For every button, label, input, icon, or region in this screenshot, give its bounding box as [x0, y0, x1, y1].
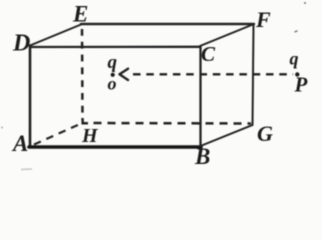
svg-text:B: B — [194, 144, 210, 169]
noise speck top right — [304, 2, 306, 4]
svg-text:H: H — [81, 125, 99, 147]
svg-text:C: C — [201, 42, 216, 66]
svg-text:E: E — [72, 2, 88, 27]
wire edge F-G (back-right vertical) — [253, 24, 254, 125]
wire edge E-F (top back) — [81, 23, 254, 25]
wire hidden edge H-G (dashed horizontal) — [94, 122, 252, 125]
noise speck bottom left — [21, 168, 32, 171]
svg-text:q: q — [290, 49, 299, 69]
wire hidden corner at H — [83, 118, 89, 123]
arrowhead at o — [120, 69, 129, 80]
wire hidden edge E-H (dashed vertical) — [81, 29, 84, 118]
node P (dot) — [295, 72, 299, 76]
svg-text:G: G — [257, 121, 273, 146]
wire edge B-G (bottom-right slant) — [201, 125, 253, 146]
wire edge D-A (left vertical) — [29, 46, 32, 147]
wire hidden edge A-H (dashed slant) — [34, 125, 79, 145]
node o (dot) — [111, 73, 115, 77]
noise speck right — [295, 31, 298, 32]
wire edge A-B (bottom front) — [29, 145, 201, 149]
svg-text:q: q — [108, 52, 118, 73]
svg-text:o: o — [108, 74, 117, 94]
wire edge D-E (top-left slant) — [30, 25, 81, 46]
svg-text:P: P — [294, 73, 308, 97]
wire edge C-B (front-right vertical) — [199, 47, 201, 147]
svg-text:A: A — [11, 131, 28, 156]
svg-text:F: F — [255, 7, 271, 32]
noise speck left — [1, 127, 3, 129]
svg-text:D: D — [12, 31, 30, 57]
wire edge D-C (top front) — [30, 46, 200, 49]
wire edge C-F (top-right slant) — [200, 24, 254, 46]
wire dashed ray P to o — [133, 73, 293, 75]
